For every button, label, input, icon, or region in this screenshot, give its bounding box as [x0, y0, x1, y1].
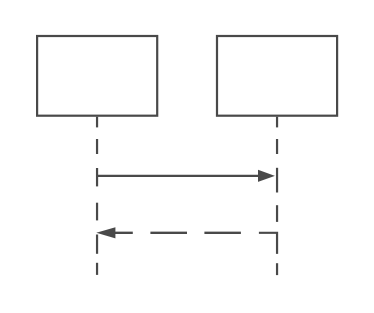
- lifeline A dashed stem: [96, 117, 98, 275]
- lifeline participant box A: [37, 36, 157, 116]
- lifeline participant box B: [217, 36, 337, 116]
- solid message arrow A to B: [97, 175, 260, 177]
- return message arrowhead: [96, 227, 115, 238]
- solid message arrowhead: [258, 170, 275, 182]
- lifeline B dashed stem: [259, 117, 277, 275]
- dashed return message B to A: [114, 232, 241, 234]
